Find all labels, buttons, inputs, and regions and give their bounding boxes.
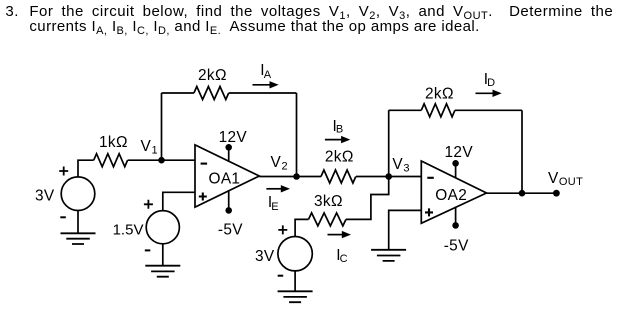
- ground (1.5V source): [145, 244, 180, 277]
- svg-text:V: V: [271, 154, 282, 171]
- svg-text:2kΩ: 2kΩ: [425, 86, 454, 103]
- svg-text:1: 1: [152, 144, 158, 156]
- terminal VOUT: [548, 170, 583, 197]
- wire OA2 feedback top left: [389, 109, 422, 111]
- node V3: [385, 156, 409, 180]
- svg-text:C: C: [340, 253, 348, 265]
- current label ID with arrow: [476, 71, 502, 97]
- wire OA1 feedback right drop to V2: [296, 93, 298, 177]
- svg-text:2: 2: [282, 161, 288, 173]
- ground (middle 3V source): [278, 271, 313, 302]
- node V2: [271, 154, 300, 180]
- OA2 supply 12V: [445, 144, 474, 178]
- svg-text:V: V: [141, 138, 152, 155]
- resistor 3kOhm: [309, 193, 346, 226]
- voltage source 3V (middle): [255, 225, 312, 275]
- svg-text:A: A: [264, 69, 272, 81]
- wire 1k resistor to op-amp inverting input: [128, 159, 195, 161]
- wire 2k to V3: [356, 176, 421, 178]
- svg-text:1.5V: 1.5V: [113, 221, 144, 238]
- OA1 supply 12V: [219, 129, 248, 162]
- svg-text:V: V: [392, 156, 403, 173]
- wire OA2 output to VOUT: [486, 192, 556, 194]
- node V1: [141, 138, 165, 164]
- svg-text:3V: 3V: [255, 248, 275, 265]
- svg-text:2kΩ: 2kΩ: [198, 67, 227, 84]
- svg-text:2kΩ: 2kΩ: [325, 149, 354, 166]
- wire OA2 non-inverting input to ground: [389, 210, 422, 249]
- voltage source 3V (left): [35, 167, 95, 218]
- current label IC with arrow: [328, 231, 352, 265]
- OA2 supply -5V: [444, 207, 469, 255]
- current label IB with arrow: [325, 118, 350, 144]
- svg-text:OA1: OA1: [209, 170, 241, 187]
- OA1 supply -5V: [218, 191, 243, 239]
- ground (OA2 non-inverting input): [371, 250, 406, 261]
- svg-text:3V: 3V: [35, 187, 55, 204]
- svg-text:12V: 12V: [219, 129, 248, 146]
- problem statement line 1: [5, 4, 19, 19]
- svg-text:B: B: [336, 124, 344, 136]
- wire OA2 feedback top right: [455, 109, 522, 111]
- wire 1.5V source to op-amp non-inverting input: [163, 192, 195, 210]
- op-amp OA1: [195, 145, 259, 207]
- svg-text:-5V: -5V: [444, 238, 469, 255]
- wire OA1 feedback left riser: [161, 93, 163, 160]
- svg-text:1kΩ: 1kΩ: [99, 134, 128, 151]
- svg-text:12V: 12V: [445, 144, 474, 161]
- current label IE with arrow: [266, 185, 290, 213]
- ground (left 3V source): [61, 211, 96, 245]
- svg-text:E: E: [271, 201, 279, 213]
- svg-text:D: D: [487, 77, 495, 89]
- node output junction: [519, 190, 526, 197]
- resistor 2kOhm (between V2 and V3): [321, 149, 356, 183]
- wire 3V source to 1k resistor: [78, 160, 94, 177]
- wire 3V (middle) to 3k resistor: [295, 219, 308, 236]
- wire OA1 feedback top left: [162, 92, 194, 94]
- svg-text:-5V: -5V: [218, 222, 243, 239]
- resistor R 1kOhm: [94, 134, 128, 167]
- wire OA1 output to V2: [259, 176, 321, 178]
- wire OA2 feedback right drop to output: [521, 110, 523, 193]
- op-amp OA2: [421, 161, 486, 223]
- resistor 2kOhm (feedback OA1): [194, 67, 229, 100]
- svg-text:3: 3: [403, 162, 409, 174]
- problem statement line 2: [29, 19, 479, 34]
- svg-text:OUT: OUT: [559, 176, 583, 188]
- voltage source 1.5V: [113, 200, 180, 251]
- current label IA with arrow: [253, 62, 279, 89]
- wire 3k resistor staircase up to V3: [346, 177, 389, 220]
- svg-text:OA2: OA2: [435, 187, 467, 204]
- svg-text:V: V: [548, 170, 559, 187]
- svg-text:3kΩ: 3kΩ: [314, 193, 343, 210]
- resistor 2kOhm (feedback OA2): [421, 86, 455, 117]
- wire OA1 feedback top right: [229, 92, 297, 94]
- wire OA2 feedback left riser from V3: [388, 110, 390, 176]
